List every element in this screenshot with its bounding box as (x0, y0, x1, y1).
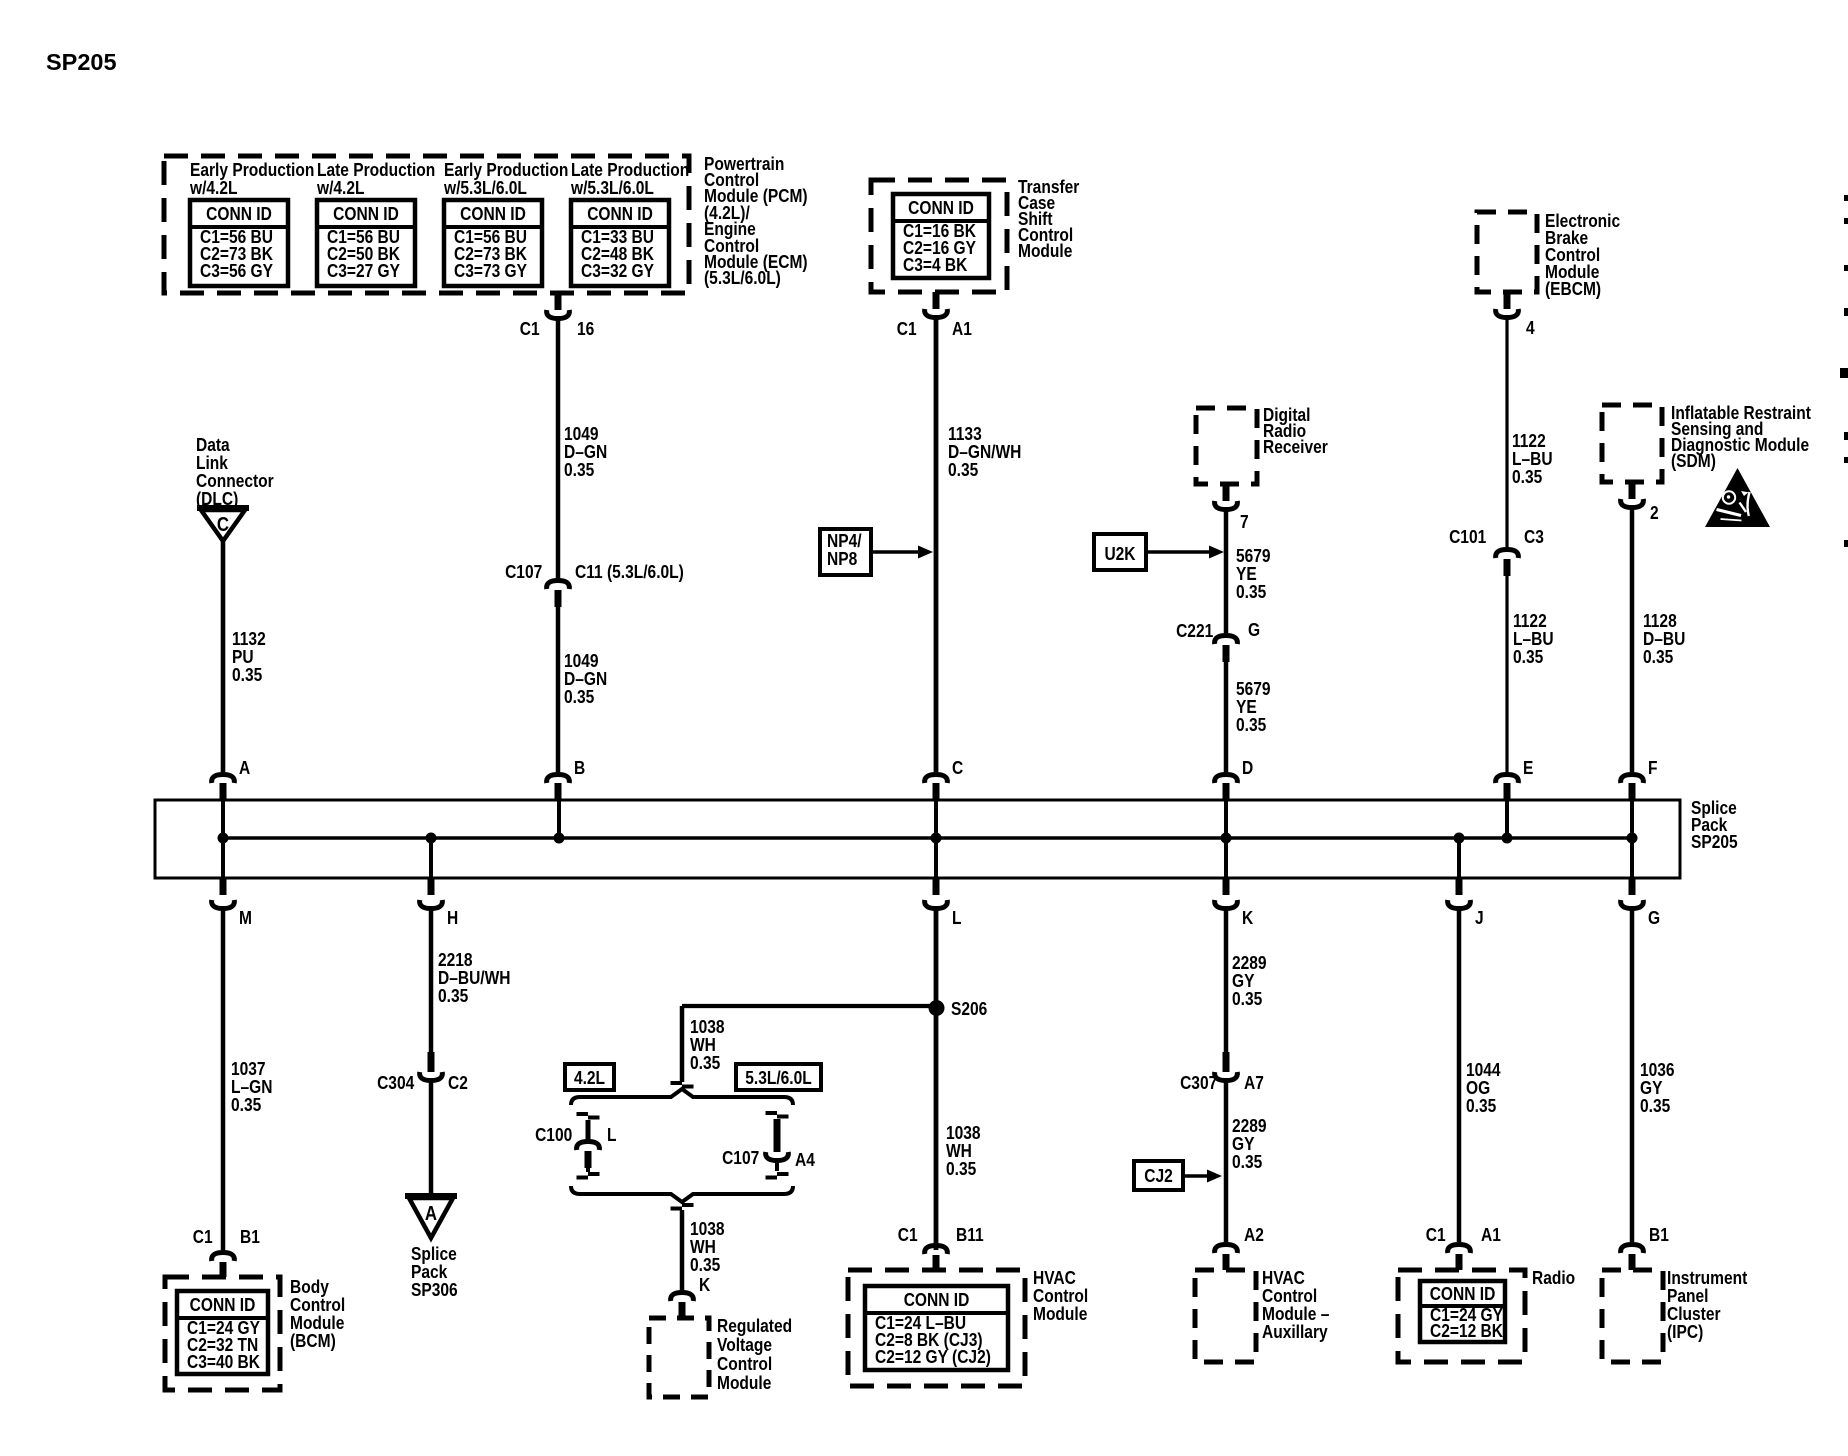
text label C1 (897, 320, 917, 338)
arrow NP4/NP8 to wire (871, 550, 921, 554)
wire 1044 OG (1457, 906, 1462, 1242)
splice pack bus bar (223, 836, 1632, 840)
text label C (210, 516, 235, 534)
bus junction dots (218, 833, 229, 844)
text label B1 (240, 1228, 260, 1246)
text label 1038 WH 0.35 (690, 1220, 725, 1274)
text label C307 (1180, 1074, 1217, 1092)
splice bottom terminal G (1629, 878, 1636, 895)
text label A2 (1244, 1226, 1264, 1244)
text label Early Production w/5.3L/6.0L (444, 161, 568, 197)
splice terminal C (925, 775, 948, 784)
text label 1049 D–GN 0.35 (564, 652, 607, 706)
module Electronic Brake Control Module dashed box (1477, 212, 1537, 292)
text label 2289 GY 0.35 (1232, 954, 1267, 1008)
module BCM dashed box (165, 1277, 280, 1390)
text label C1 (520, 320, 540, 338)
terminal foot above brace (671, 1081, 683, 1085)
BCM CONN ID table (177, 1291, 268, 1374)
text label H (447, 909, 458, 927)
text label Late Production w/4.2L (317, 161, 435, 197)
text label CONN ID (452, 205, 534, 223)
terminal foot below brace (682, 1203, 694, 1207)
bottom brace (571, 1186, 793, 1202)
text label B (574, 759, 585, 777)
text label A1 (1481, 1226, 1501, 1244)
text label L (607, 1126, 617, 1144)
module Transfer Case Shift Control Module dashed box (871, 180, 1007, 292)
module HVAC Control Module - Auxillary dashed box (1195, 1270, 1256, 1362)
splice bottom terminal H (428, 878, 435, 895)
wire 1133 D-GN/WH (934, 315, 939, 772)
text label 4.2L (569, 1069, 610, 1087)
module Regulated Voltage Control Module dashed box (649, 1318, 709, 1397)
branch wire S206 to engine braces (682, 1004, 936, 1008)
text label C2=32 TN (187, 1336, 258, 1354)
inline connector C304 / C2 (428, 1052, 435, 1072)
inline connector C107 / C11 (5.3L/6.0L) (547, 581, 570, 590)
Transfer Case CONN ID table (893, 194, 989, 278)
connector pin K into RVCM (671, 1293, 694, 1302)
junction S206 (929, 1000, 945, 1016)
text label C2=73 BK (454, 245, 527, 263)
module HVAC Control Module dashed box (848, 1270, 1025, 1386)
text label G (1648, 909, 1660, 927)
splice bottom terminal K (1223, 878, 1230, 895)
text label 5679 YE 0.35 (1236, 547, 1271, 601)
PCM CONN ID table 2 (317, 200, 415, 286)
text label 1037 L–GN 0.35 (231, 1060, 272, 1114)
text label 2289 GY 0.35 (1232, 1117, 1267, 1171)
wire 2289 GY upper segment (1224, 906, 1229, 1052)
text label L (952, 909, 962, 927)
text label 1122 L–BU 0.35 (1513, 612, 1554, 666)
text label C1=56 BU (200, 228, 273, 246)
splice pack SP306 triangle A (409, 1198, 453, 1238)
text label Regulated Voltage Control Module (717, 1316, 792, 1392)
inline connector C221 / G (1215, 636, 1238, 645)
text label 2218 D–BU/WH 0.35 (438, 951, 511, 1005)
text label C2 (448, 1074, 468, 1092)
text label C1=24 L–BU (875, 1314, 966, 1332)
inline connector C307 / A7 (1223, 1052, 1230, 1072)
text label Electronic Brake Control Module (EBCM) (1545, 212, 1620, 297)
text label C2=48 BK (581, 245, 654, 263)
wire 5679 YE lower segment (1224, 662, 1229, 772)
PCM CONN ID table 4 (571, 200, 669, 286)
text label A4 (795, 1151, 815, 1169)
text label C1 (898, 1226, 918, 1244)
wire 1122 L-BU lower segment (1505, 576, 1508, 772)
text label C3=4 BK (903, 256, 967, 274)
text label C3=56 GY (200, 262, 273, 280)
text label C2=12 GY (CJ2) (875, 1348, 991, 1366)
text label E (1523, 759, 1533, 777)
text label K (1242, 909, 1253, 927)
module Radio dashed box (1398, 1270, 1525, 1362)
splice terminal B (547, 775, 570, 784)
text label CONN ID (579, 205, 661, 223)
text label C304 (377, 1074, 414, 1092)
wire 1036 GY (1630, 906, 1635, 1242)
text label 1049 D–GN 0.35 (564, 425, 607, 479)
text label S206 (951, 1000, 987, 1018)
arrow U2K to wire (1146, 550, 1212, 554)
text label CONN ID (1427, 1285, 1498, 1303)
top brace (571, 1089, 793, 1105)
wire 2218 D-BU/WH (429, 906, 434, 1052)
text label CONN ID (325, 205, 407, 223)
text label CONN ID (198, 205, 280, 223)
text label Body Control Module (BCM) (290, 1278, 345, 1350)
text label C1=33 BU (581, 228, 654, 246)
wire 1128 D-BU (1630, 505, 1635, 772)
text label J (1475, 909, 1484, 927)
option code box NP4/NP8 (820, 529, 871, 575)
connector C1 pin A1 below Transfer Case module (933, 292, 940, 309)
inline connector C100 / L (4.2L) (577, 1112, 589, 1116)
text label U2K (1098, 545, 1142, 563)
text label Data Link Connector (DLC) (196, 436, 274, 508)
text label 5.3L/6.0L (743, 1069, 814, 1087)
module Instrument Panel Cluster dashed box (1602, 1270, 1663, 1362)
wire to splice pack SP306 (429, 1078, 434, 1196)
text label Radio (1532, 1269, 1575, 1287)
text label C107 (505, 563, 542, 581)
splice pack SP205 box (155, 800, 1680, 878)
connector pin 4 below EBCM (1504, 292, 1511, 309)
connector C1 pin B11 into HVAC (925, 1246, 948, 1255)
connector pin 2 below SDM (1629, 482, 1636, 499)
text label 16 (577, 320, 594, 338)
text label CONN ID (876, 1291, 996, 1309)
module Digital Radio Receiver dashed box (1196, 408, 1257, 484)
text label G (1248, 621, 1260, 639)
module PCM/ECM dashed box (164, 156, 689, 293)
text label C3=32 GY (581, 262, 654, 280)
text label C3=73 GY (454, 262, 527, 280)
text label A (239, 759, 250, 777)
connector C1 pin 16 below PCM (555, 293, 562, 310)
text label M (239, 909, 252, 927)
PCM CONN ID table 3 (444, 200, 542, 286)
text label 1133 D–GN/WH 0.35 (948, 425, 1021, 479)
text label Splice Pack SP205 (1691, 799, 1738, 850)
wire 1122 L-BU upper segment (1505, 315, 1508, 547)
connector C1 pin A1 into Radio (1448, 1245, 1471, 1254)
wire 1038 WH from bus to S206 (934, 906, 939, 1250)
text label C1 (193, 1228, 213, 1246)
text label C1=24 GY (187, 1319, 260, 1337)
text label Digital Radio Receiver (1263, 407, 1328, 455)
text label C1=56 BU (454, 228, 527, 246)
wire 5679 YE upper segment (1224, 507, 1229, 633)
splice bottom terminal M (220, 878, 227, 895)
text label 1038 WH 0.35 (946, 1124, 981, 1178)
text label 7 (1240, 513, 1249, 531)
text label HVAC Control Module (1033, 1269, 1088, 1323)
text label C2=50 BK (327, 245, 400, 263)
text label 1036 GY 0.35 (1640, 1061, 1675, 1115)
text label 1128 D–BU 0.35 (1643, 612, 1685, 666)
text label B1 (1649, 1226, 1669, 1244)
text label 5679 YE 0.35 (1236, 680, 1271, 734)
text label 4 (1526, 319, 1535, 337)
splice bottom terminal J (1456, 878, 1463, 895)
option box 5.3L/6.0L (736, 1064, 821, 1090)
text label C3 (1524, 528, 1544, 546)
wire 2289 GY lower segment (1224, 1078, 1229, 1242)
option box 4.2L (565, 1064, 614, 1090)
text label NP4/ NP8 (827, 532, 862, 568)
splice terminal D (1215, 775, 1238, 784)
connector pin 7 below Digital Radio Receiver (1223, 484, 1230, 501)
text label C101 (1449, 528, 1486, 546)
text label C1=24 GY (1430, 1306, 1503, 1324)
text label C1 (1426, 1226, 1446, 1244)
text label 1122 L–BU 0.35 (1512, 432, 1553, 486)
splice terminal F (1621, 775, 1644, 784)
text label B11 (956, 1226, 984, 1244)
text label 1044 OG 0.35 (1466, 1061, 1501, 1115)
module Inflatable Restraint SDM dashed box (1602, 405, 1662, 482)
wire 1037 L-GN (221, 906, 226, 1250)
text label Inflatable Restraint Sensing and Diagnostic Module (SDM) (1671, 405, 1811, 469)
text label CJ2 (1138, 1167, 1179, 1185)
text label A1 (952, 320, 972, 338)
text label Late Production w/5.3L/6.0L (571, 161, 689, 197)
connector triangle C (DLC) (201, 510, 245, 541)
text label HVAC Control Module – Auxillary (1262, 1269, 1329, 1341)
text label C2=12 BK (1430, 1322, 1503, 1340)
text label C100 (535, 1126, 572, 1144)
connector pin B1 into IPC (1621, 1245, 1644, 1254)
connector C1 pin B1 into BCM (212, 1253, 235, 1262)
text label D (1242, 759, 1253, 777)
connector pin A2 into HVAC Aux (1215, 1245, 1238, 1254)
HVAC CONN ID table (865, 1286, 1008, 1370)
text label F (1648, 759, 1658, 777)
text label Early Production w/4.2L (190, 161, 314, 197)
inline connector C101 / C3 (1496, 550, 1519, 559)
text label C (952, 759, 963, 777)
splice bottom terminal L (933, 878, 940, 895)
text label 2 (1650, 504, 1659, 522)
text label C2=8 BK (CJ3) (875, 1331, 983, 1349)
text label CONN ID (901, 199, 982, 217)
text label C11 (5.3L/6.0L) (575, 563, 684, 581)
option code box U2K (1094, 534, 1146, 570)
text label C221 (1176, 622, 1213, 640)
Radio CONN ID table (1420, 1281, 1505, 1342)
text label Instrument Panel Cluster (IPC) (1667, 1269, 1747, 1341)
text label Transfer Case Shift Control Module (1018, 179, 1079, 259)
inline connector C107 / A4 (5.3L/6.0L) (766, 1111, 778, 1115)
text label K (699, 1276, 710, 1294)
option code box CJ2 (1134, 1161, 1183, 1190)
text label CONN ID (184, 1296, 260, 1314)
splice terminal E (1496, 775, 1519, 784)
wire 1049 D-GN lower segment (556, 607, 561, 772)
text label C107 (722, 1149, 759, 1167)
text label C3=40 BK (187, 1353, 260, 1371)
text label C1=16 BK (903, 222, 976, 240)
text label 1132 PU 0.35 (232, 630, 266, 684)
wire 1049 D-GN upper segment (556, 316, 561, 578)
airbag warning icon (1705, 468, 1770, 527)
text label Powertrain Control Module (PCM) (4.2L)/ Engine Control Module (ECM) (5.3L/6.0L) (704, 156, 808, 287)
text label A7 (1244, 1074, 1264, 1092)
internal wires in splice pack (221, 800, 225, 878)
wire 1132 PU (221, 541, 226, 772)
text label Splice Pack SP306 (411, 1245, 458, 1299)
text label C2=16 GY (903, 239, 976, 257)
text label C3=27 GY (327, 262, 400, 280)
text label C2=73 BK (200, 245, 273, 263)
text label A (418, 1205, 443, 1223)
PCM CONN ID table 1 (190, 200, 288, 286)
page edge marks (1844, 195, 1848, 201)
splice terminal A (212, 775, 235, 784)
text label C1=56 BU (327, 228, 400, 246)
text label 1038 WH 0.35 (690, 1018, 725, 1072)
arrow CJ2 to wire (1183, 1174, 1210, 1178)
wire 1038 WH to RVCM (680, 1210, 685, 1290)
